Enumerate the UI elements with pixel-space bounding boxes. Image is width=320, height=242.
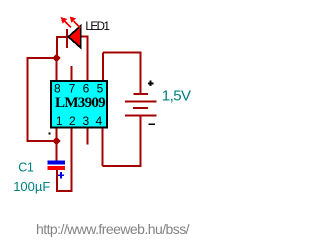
svg-text:LM3909: LM3909 [55,95,105,111]
svg-text:100µF: 100µF [13,179,50,194]
battery B1 plate short top [134,93,149,95]
wire pin 8 [56,58,58,80]
node junction B [52,137,60,145]
wire [56,36,58,58]
wire pin 3 stub [86,129,88,145]
battery B1 plate long [125,100,157,102]
wire [27,57,29,142]
svg-text:1: 1 [56,114,63,128]
svg-text:http://www.freeweb.hu/bss/: http://www.freeweb.hu/bss/ [36,221,190,237]
battery plus sign [148,81,153,86]
svg-text:C1: C1 [18,161,34,175]
capacitor C1 plate red [47,166,65,170]
wire [56,190,73,192]
LED1 arrow 2 [70,17,81,28]
svg-text:1,5V: 1,5V [162,88,191,105]
battery B1 plate long bottom [125,115,157,117]
capacitor plus sign [58,172,64,178]
wire [27,140,57,142]
LED1 arrow 1 [61,17,71,27]
svg-text:5: 5 [97,81,104,95]
LED1 cathode bar [66,29,68,48]
svg-text:8: 8 [54,81,61,95]
svg-text:6: 6 [83,81,90,95]
wire capacitor bottom [56,170,58,191]
svg-text:2: 2 [69,114,76,128]
stray dot [49,133,51,135]
wire [57,36,68,38]
op-amp U1 LM3909 IC body [51,81,107,128]
svg-text:7: 7 [69,81,76,95]
wire pin 4 [102,129,104,166]
capacitor C1 plate blue [47,161,65,165]
LED1 triangle [68,26,81,48]
svg-text:4: 4 [96,114,103,128]
wire [103,52,142,54]
wire [28,57,57,59]
wire [81,36,88,38]
battery minus sign [149,123,155,125]
wire battery bottom [140,116,142,166]
svg-text:3: 3 [82,114,89,128]
wire pin 7 stub [71,66,73,80]
wire pin 6 [87,36,89,80]
wire pin 5 [102,53,104,81]
wire pin 2 [71,129,73,192]
battery B1 plate short [133,107,148,109]
svg-text:LED1: LED1 [85,21,109,33]
wire battery top [140,52,142,95]
wire pin 1 [56,129,58,161]
wire [103,165,142,167]
node junction A [52,54,60,62]
